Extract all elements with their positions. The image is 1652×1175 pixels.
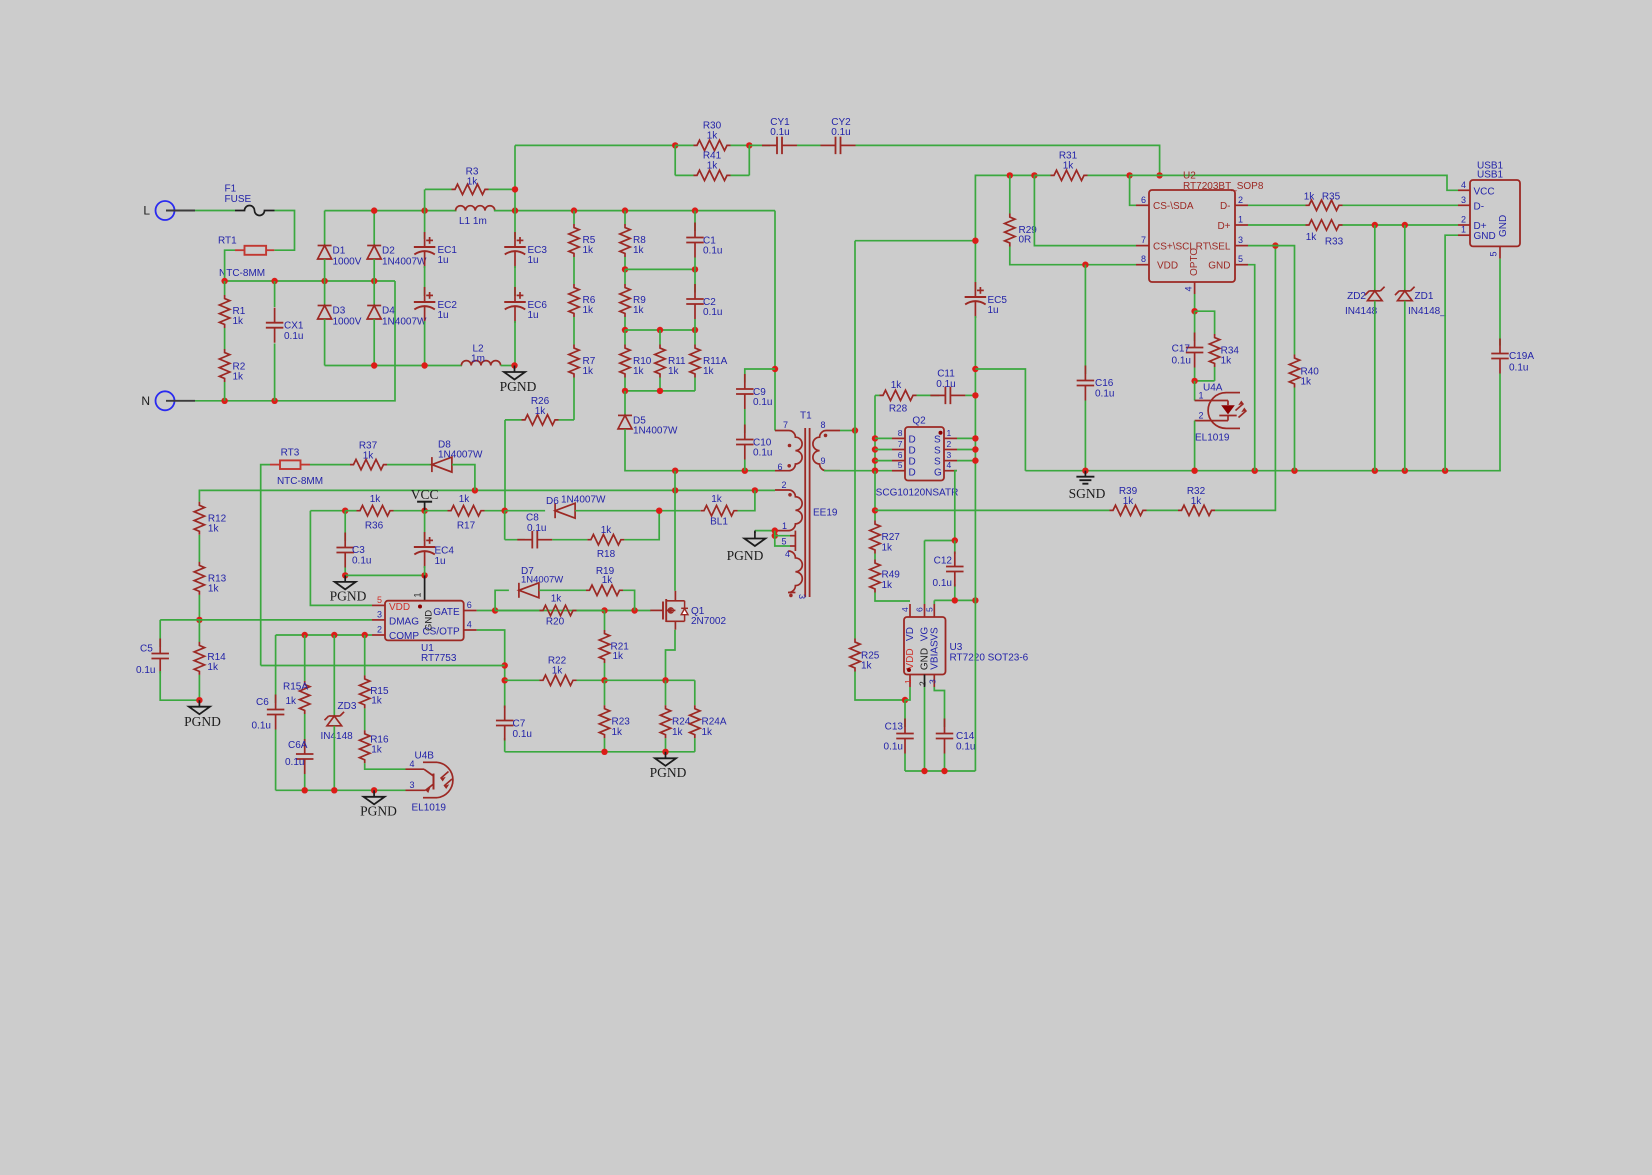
junction sgnd R40: [1291, 468, 1297, 474]
svg-text:1k: 1k: [707, 161, 719, 172]
svg-text:0.1u: 0.1u: [770, 127, 789, 138]
wire R5 top: [573, 211, 575, 224]
wire R23 bot: [604, 738, 606, 752]
svg-text:1: 1: [413, 592, 423, 597]
svg-text:0.1u: 0.1u: [1095, 389, 1114, 400]
svg-text:1: 1: [1461, 225, 1466, 235]
svg-text:5: 5: [1489, 251, 1499, 256]
transistor Q1 2N7002: [650, 591, 726, 630]
svg-text:6: 6: [898, 450, 903, 460]
wire node391: [625, 390, 695, 392]
svg-text:1k: 1k: [552, 666, 564, 677]
transformer T1 core: [800, 411, 838, 598]
wire R2 to N: [224, 382, 226, 401]
svg-text:0.1u: 0.1u: [956, 742, 975, 753]
wire R34 bot: [1214, 367, 1216, 381]
svg-text:1N4007W: 1N4007W: [382, 317, 427, 328]
svg-text:1k: 1k: [583, 366, 595, 377]
wire U3 gnd down: [924, 687, 926, 771]
connector USB1: [1458, 160, 1520, 258]
wire USB gnd: [1445, 235, 1458, 471]
svg-text:1k: 1k: [882, 543, 894, 554]
junction bus s1: [972, 435, 978, 441]
wire R41 right leg: [748, 145, 750, 175]
svg-text:PGND: PGND: [727, 548, 764, 563]
junction Q2 d6: [872, 457, 878, 463]
svg-text:1k: 1k: [583, 305, 595, 316]
svg-text:D-: D-: [1220, 201, 1231, 212]
wire C2 bot2: [694, 319, 696, 330]
svg-text:ZD1: ZD1: [1415, 291, 1434, 302]
wire R15-R16: [364, 708, 366, 730]
wire Dminus left: [1248, 204, 1306, 206]
wire top rail left: [325, 210, 457, 212]
svg-text:R35: R35: [1322, 191, 1341, 202]
wire U4A pin1 link: [1194, 381, 1196, 401]
wire R34 top jog: [1195, 311, 1215, 334]
svg-text:G: G: [934, 468, 942, 479]
capacitor C14: [936, 719, 976, 754]
wire ZD2 top: [1374, 225, 1376, 291]
power VCC: [411, 487, 439, 511]
svg-text:3: 3: [1238, 235, 1243, 245]
svg-text:SCG10120NSATR: SCG10120NSATR: [876, 488, 959, 499]
resistor R18: [587, 525, 624, 560]
svg-text:6: 6: [778, 462, 783, 472]
svg-text:1k: 1k: [668, 366, 680, 377]
resistor R1: [219, 281, 245, 328]
resistor R25: [850, 431, 880, 672]
svg-text:1k: 1k: [370, 494, 382, 505]
resistor R36: [345, 494, 424, 532]
wire sgnd rail: [1025, 470, 1501, 472]
junction rail R5: [571, 207, 577, 213]
junction rail C1: [692, 207, 698, 213]
junction R14 bot: [196, 697, 202, 703]
svg-text:L: L: [143, 204, 150, 218]
svg-text:PGND: PGND: [184, 714, 221, 729]
wire Q2 s2: [957, 449, 975, 451]
wire D6 left: [505, 510, 545, 512]
wire C6 branch: [275, 635, 277, 703]
svg-text:0.1u: 0.1u: [527, 523, 546, 534]
svg-text:3: 3: [409, 780, 414, 790]
wire Q2 gate: [955, 471, 957, 541]
wire C10 bot: [744, 460, 746, 471]
diode D4: [367, 306, 427, 328]
junction C12 top: [952, 537, 958, 543]
svg-text:C3: C3: [352, 545, 365, 556]
diode D2: [367, 246, 427, 268]
ground PGND Q1: [650, 752, 687, 780]
svg-text:8: 8: [821, 420, 826, 430]
wire EC2 bottom: [424, 321, 426, 366]
transformer T1 winding 4-3: [788, 551, 807, 599]
svg-text:1k: 1k: [882, 580, 894, 591]
resistor R23: [599, 705, 630, 738]
wire EC1 top: [424, 211, 426, 239]
svg-text:C11: C11: [937, 369, 955, 380]
wire sgnd link: [975, 369, 1025, 471]
svg-text:1: 1: [1198, 390, 1203, 400]
svg-text:R24A: R24A: [702, 717, 727, 728]
svg-text:C8: C8: [526, 513, 539, 524]
capacitor C12: [933, 541, 964, 601]
svg-text:2: 2: [947, 439, 952, 449]
svg-text:C12: C12: [934, 556, 953, 567]
svg-text:1: 1: [782, 521, 787, 531]
wire EC1-EC2: [424, 266, 426, 296]
wire R11 top lead: [659, 330, 661, 345]
junction R17 right: [502, 508, 508, 514]
svg-text:5: 5: [782, 537, 787, 547]
optocoupler U4B: [406, 750, 453, 813]
wire pin1 net: [755, 530, 775, 532]
svg-text:2N7002: 2N7002: [691, 616, 726, 627]
junction pin8: [852, 427, 858, 433]
capacitor C1: [686, 223, 722, 258]
capacitor EC4: [414, 532, 455, 568]
wire EC5 tap: [854, 241, 856, 431]
wire Q1 source: [666, 630, 676, 681]
junction VDD C13: [902, 697, 908, 703]
wire Dplus right: [1343, 224, 1459, 226]
wire top rail right: [494, 210, 775, 212]
svg-text:ZD3: ZD3: [338, 701, 357, 712]
ground PGND U4B: [360, 790, 397, 818]
junction gate R19: [631, 607, 637, 613]
capacitor C5: [136, 639, 169, 677]
resistor R20: [495, 594, 604, 628]
resistor R10: [620, 345, 652, 378]
wire mid rail: [225, 280, 395, 282]
svg-text:4: 4: [900, 607, 910, 612]
svg-text:SGND: SGND: [1069, 486, 1106, 501]
wire CY2 right: [856, 145, 1160, 175]
svg-text:C6A: C6A: [288, 740, 308, 751]
svg-text:R24: R24: [672, 717, 691, 728]
svg-text:R28: R28: [889, 404, 908, 415]
resistor R27: [870, 521, 900, 554]
junction aux BL1: [752, 487, 758, 493]
resistor R14: [194, 620, 226, 700]
wire Q2 pin8: [875, 437, 892, 439]
wire D2-D4: [373, 259, 375, 306]
svg-text:1k: 1k: [861, 660, 873, 671]
svg-text:7: 7: [1141, 235, 1146, 245]
svg-text:9: 9: [821, 456, 826, 466]
capacitor C7: [496, 706, 532, 741]
svg-text:1k: 1k: [1306, 232, 1318, 243]
svg-text:1000V: 1000V: [333, 257, 362, 268]
svg-text:1k: 1k: [711, 494, 723, 505]
svg-text:0.1u: 0.1u: [252, 721, 271, 732]
wire C16 bot: [1084, 401, 1086, 471]
wire C1 bot: [694, 258, 696, 270]
junction C10 bot: [742, 468, 748, 474]
wire Q1 drain: [674, 471, 676, 591]
svg-text:GND: GND: [424, 610, 435, 631]
svg-text:PGND: PGND: [360, 804, 397, 819]
capacitor EC3: [504, 232, 547, 268]
svg-text:1N4007W: 1N4007W: [438, 450, 483, 461]
svg-text:1k: 1k: [891, 380, 903, 391]
wire Q2 drain bus: [874, 395, 876, 470]
junction PGND1: [511, 362, 517, 368]
svg-text:2: 2: [782, 480, 787, 490]
svg-text:1k: 1k: [535, 406, 547, 417]
junction gate D7: [492, 607, 498, 613]
resistor R15A: [283, 635, 310, 714]
wire R19 right: [623, 590, 635, 610]
ground PGND R14: [184, 700, 221, 729]
resistor R12: [194, 502, 226, 535]
svg-text:L1 1m: L1 1m: [459, 216, 487, 227]
junction R30 left: [672, 142, 678, 148]
wire aux rail: [200, 489, 775, 491]
wire C13 bot: [904, 754, 906, 772]
svg-text:0.1u: 0.1u: [284, 331, 303, 342]
svg-text:F1: F1: [225, 184, 237, 195]
svg-text:1000V: 1000V: [333, 317, 362, 328]
wire R10 bot: [624, 378, 626, 391]
capacitor C11 h: [930, 369, 965, 405]
svg-text:U4A: U4A: [1203, 382, 1223, 393]
wire Dplus left: [1248, 224, 1306, 226]
svg-text:PGND: PGND: [650, 765, 687, 780]
capacitor C6: [252, 695, 285, 732]
port L: [143, 201, 195, 220]
wire R25 bot: [855, 672, 905, 701]
svg-text:0.1u: 0.1u: [933, 578, 952, 589]
svg-text:ZD2: ZD2: [1347, 291, 1366, 302]
svg-text:0.1u: 0.1u: [936, 379, 955, 390]
svg-text:S: S: [934, 446, 941, 457]
wire CSOTP path: [477, 630, 505, 752]
diode D8: [432, 439, 483, 472]
wire C13C14 rail: [905, 770, 975, 772]
svg-text:5: 5: [925, 607, 935, 612]
junction rail D2: [371, 207, 377, 213]
junction sgnd C16: [1082, 468, 1088, 474]
wire Q2 pin7: [875, 449, 892, 451]
svg-text:2: 2: [1238, 195, 1243, 205]
wire pin9 to Q2: [824, 470, 892, 472]
svg-text:R23: R23: [612, 717, 631, 728]
wire C19A bot: [1499, 374, 1501, 471]
wire VCC net right: [1130, 175, 1458, 190]
svg-text:R49: R49: [882, 570, 901, 581]
junction rail EC1: [421, 207, 427, 213]
wire C5 top: [159, 620, 161, 647]
junction R21 bot: [601, 677, 607, 683]
wire U2 gnd path: [1248, 265, 1255, 471]
wire R13 bot: [198, 595, 200, 620]
svg-text:8: 8: [898, 428, 903, 438]
capacitor EC2: [414, 287, 458, 323]
capacitor C10: [736, 425, 772, 460]
junction mid2: [271, 278, 277, 284]
wire VG vert: [924, 541, 926, 605]
resistor R22: [505, 656, 605, 686]
svg-text:USB1: USB1: [1477, 170, 1504, 181]
wire R32 right: [1215, 246, 1275, 511]
junction R29 top: [1007, 172, 1013, 178]
svg-text:U2: U2: [1183, 171, 1196, 182]
svg-text:0.1u: 0.1u: [285, 757, 304, 768]
transformer T1 aux 2-1: [775, 480, 802, 531]
resistor R41: [675, 151, 749, 181]
inductor L2: [461, 344, 500, 366]
wire Q2 s1: [957, 437, 975, 439]
ground PGND C3: [330, 575, 367, 603]
wire pin4 jog: [775, 536, 790, 546]
wire D4 bottom: [373, 319, 375, 366]
wire C6 bot: [275, 730, 277, 791]
svg-text:VCC: VCC: [1474, 186, 1495, 197]
svg-text:DMAG: DMAG: [389, 616, 419, 627]
wire D5 top lead: [624, 391, 626, 416]
wire R26 left down: [504, 420, 506, 511]
capacitor C6A: [285, 739, 313, 774]
capacitor C17: [1172, 311, 1204, 367]
wire pin8 to node: [840, 430, 855, 432]
junction RTSEL: [1272, 242, 1278, 248]
svg-text:1k: 1k: [602, 575, 614, 586]
svg-text:R33: R33: [1325, 237, 1344, 248]
junction pin9 node: [872, 468, 878, 474]
junction rail EC3: [512, 207, 518, 213]
mosfet Q2 SCG10120NSATR: [876, 416, 959, 499]
svg-text:0.1u: 0.1u: [753, 397, 772, 408]
wire EC3 top: [514, 211, 516, 239]
resistor R30: [675, 121, 749, 151]
svg-text:C7: C7: [513, 719, 526, 730]
junction opto top: [1191, 308, 1197, 314]
capacitor C8 h: [517, 513, 552, 549]
resistor R16: [360, 730, 389, 763]
junction R3 right: [512, 186, 518, 192]
junction rail PGND: [371, 787, 377, 793]
svg-text:NTC-8MM: NTC-8MM: [277, 476, 323, 487]
wire R1-R2: [224, 328, 226, 350]
wire R9 top: [624, 269, 626, 284]
wire R24 top: [665, 680, 667, 705]
thermistor RT1: [218, 236, 274, 280]
svg-text:U4B: U4B: [415, 750, 435, 761]
resistor R11A: [690, 345, 728, 378]
svg-text:1k: 1k: [285, 696, 297, 707]
svg-text:1k: 1k: [583, 245, 595, 256]
wire VS corner: [933, 600, 935, 604]
wire U4A pin2 down: [1194, 421, 1196, 471]
wire ZD2 bot: [1374, 301, 1376, 471]
svg-text:R27: R27: [882, 532, 901, 543]
svg-text:7: 7: [783, 420, 788, 430]
resistor R40: [1289, 355, 1319, 388]
svg-text:1u: 1u: [435, 556, 446, 567]
svg-text:8: 8: [1141, 254, 1146, 264]
svg-text:GND: GND: [1474, 231, 1496, 242]
resistor R11: [655, 345, 686, 378]
svg-text:1k: 1k: [459, 494, 471, 505]
resistor R7: [569, 345, 596, 378]
wire node665 line: [261, 665, 505, 667]
wire GATE line: [477, 610, 651, 612]
wire D5 bottom: [625, 429, 775, 471]
wire pin7 path: [1034, 175, 1136, 245]
svg-text:VBIAS: VBIAS: [930, 640, 941, 670]
junction sgnd ZD1: [1402, 468, 1408, 474]
wire D7 branch: [495, 590, 509, 610]
svg-text:0.1u: 0.1u: [753, 448, 772, 459]
resistor R24A: [690, 705, 727, 738]
svg-text:IN4148: IN4148: [1345, 306, 1378, 317]
svg-text:3: 3: [797, 594, 807, 599]
junction brail EC2: [421, 362, 427, 368]
svg-text:VDD: VDD: [1157, 261, 1178, 272]
svg-text:RT7220 SOT23-6: RT7220 SOT23-6: [950, 652, 1029, 663]
svg-text:1u: 1u: [988, 305, 999, 316]
wire C1 top: [694, 211, 696, 231]
junction COMP R15A: [302, 632, 308, 638]
capacitor C13: [884, 719, 914, 754]
thermistor RT3: [270, 448, 323, 488]
svg-text:VS: VS: [930, 627, 941, 641]
wire R29 bot VDD: [1010, 247, 1136, 265]
junction C3 top: [342, 508, 348, 514]
junction R22 left: [502, 677, 508, 683]
diode D6: [546, 495, 606, 519]
svg-text:1N4007W: 1N4007W: [561, 495, 606, 506]
junction bus C11: [972, 392, 978, 398]
capacitor EC5: [965, 282, 1008, 318]
junction C3 gnd: [342, 572, 348, 578]
svg-text:EC4: EC4: [435, 546, 455, 557]
wire CY1-CY2: [797, 144, 821, 146]
svg-text:1k: 1k: [1063, 161, 1075, 172]
junction DMAG: [196, 617, 202, 623]
wire R36 left: [310, 510, 345, 512]
svg-text:0.1u: 0.1u: [703, 246, 722, 257]
wire D8 right: [452, 465, 475, 491]
wire pin6 path: [1130, 175, 1136, 205]
ic U2 RT7203BT: [1136, 171, 1264, 294]
wire comp rail: [276, 789, 406, 791]
svg-text:GATE: GATE: [433, 607, 460, 618]
wire D1-D3: [324, 259, 326, 306]
junction aux D8: [472, 487, 478, 493]
svg-text:1k: 1k: [551, 594, 563, 605]
svg-text:N: N: [141, 394, 150, 408]
svg-text:VD: VD: [905, 627, 916, 641]
svg-text:EL1019: EL1019: [412, 803, 447, 814]
svg-text:1u: 1u: [438, 255, 449, 266]
svg-text:1k: 1k: [1221, 356, 1233, 367]
transformer T1 secondary 8-9: [813, 420, 840, 471]
capacitor C2: [686, 284, 722, 319]
junction R27 row510: [872, 507, 878, 513]
svg-text:1k: 1k: [363, 451, 375, 462]
ground SGND: [1069, 471, 1106, 501]
svg-text:VDD: VDD: [389, 602, 410, 613]
svg-text:S: S: [934, 434, 941, 445]
svg-text:4: 4: [1184, 286, 1194, 291]
svg-text:R17: R17: [457, 521, 476, 532]
junction pin5: [772, 533, 778, 539]
wire R7 to R26: [573, 378, 575, 420]
ground PGND1: [500, 366, 537, 395]
